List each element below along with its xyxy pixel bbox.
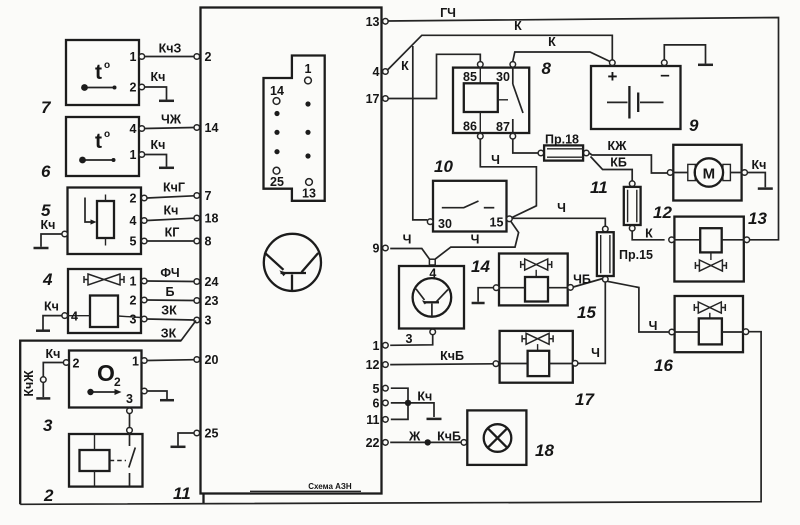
- lamp 18 box: [467, 410, 526, 465]
- valve 16 right pin: [743, 329, 749, 335]
- wire valve16 right pin to bottom rail: [20, 332, 761, 505]
- svg-text:11: 11: [590, 178, 608, 197]
- svg-text:3: 3: [130, 313, 137, 327]
- sensor 7 box: [66, 40, 139, 105]
- valve 13 stub: [710, 252, 712, 260]
- svg-text:2: 2: [130, 192, 137, 206]
- valve symbol inside 4: [84, 274, 124, 285]
- valve 13 through line: [674, 239, 744, 241]
- connector pin 13: [306, 179, 313, 186]
- wire valve15 left to ground: [478, 288, 493, 302]
- svg-text:18: 18: [535, 441, 554, 460]
- wire Ch ignition pin15 to fuse Pr15: [512, 218, 605, 226]
- svg-text:Ч: Ч: [403, 233, 412, 247]
- battery 9 box: [591, 66, 681, 129]
- ground for O2 pin 3: [160, 399, 174, 402]
- svg-text:6: 6: [373, 397, 380, 411]
- svg-text:t: t: [95, 130, 102, 153]
- svg-text:Пр.15: Пр.15: [619, 248, 653, 262]
- ground for O2 KchZh: [36, 397, 50, 400]
- wire KZh fuse18 to motor 12: [589, 153, 667, 173]
- svg-text:Ч: Ч: [649, 319, 658, 333]
- O2 symbol: [97, 360, 121, 389]
- svg-text:КчБ: КчБ: [440, 349, 464, 363]
- svg-text:КГ: КГ: [165, 226, 180, 240]
- svg-text:7: 7: [41, 98, 52, 117]
- sensor 6 box: [66, 117, 139, 176]
- valve 15 left pin: [493, 285, 499, 291]
- actuator 4 pin 2: [141, 297, 147, 303]
- relay 8 pin 86 bottom: [478, 133, 484, 139]
- svg-text:Ч: Ч: [491, 153, 500, 167]
- ECU controller box: [201, 8, 382, 494]
- wire ZK ECU pin3 down to harness box: [20, 321, 196, 341]
- svg-text:Ч: Ч: [557, 201, 566, 215]
- motor 12 right pin: [742, 170, 748, 176]
- svg-text:20: 20: [205, 353, 219, 367]
- svg-text:4: 4: [373, 65, 380, 79]
- valve 17 right pin: [572, 361, 578, 367]
- svg-text:Кч: Кч: [41, 218, 56, 232]
- svg-text:Б: Б: [166, 285, 175, 299]
- wire ChB valve15 to fuse Pr15: [573, 279, 603, 288]
- wire FCh pin1-4 to ECU pin24: [147, 280, 194, 283]
- connector dots right: [305, 101, 310, 158]
- ground for sensor 6: [159, 167, 174, 170]
- svg-text:4: 4: [42, 270, 53, 289]
- ground for ECU pin 25: [171, 446, 186, 449]
- svg-text:КчЗ: КчЗ: [159, 42, 182, 56]
- relay 8 coil leads: [479, 68, 481, 133]
- O2 bottom pin: [127, 408, 133, 414]
- actuator 4 inner link: [68, 316, 141, 318]
- wire Kch pin1-6 to ground: [145, 155, 167, 167]
- actuator 4 box: [68, 269, 141, 333]
- ECU footer label: [250, 482, 361, 491]
- module 14 box: [399, 266, 464, 329]
- ignition 10 contacts: [442, 201, 495, 208]
- ECU pin 2: [194, 54, 200, 60]
- svg-text:o: o: [104, 129, 110, 140]
- wire Ch fusePr15 to valve 16: [607, 281, 669, 332]
- relay 2 top pin: [127, 428, 133, 434]
- svg-text:К: К: [401, 59, 409, 73]
- relay 8 box: [453, 68, 529, 133]
- actuator 4 inner rect: [90, 296, 118, 328]
- ECU pin 6: [383, 400, 389, 406]
- wire Kch O2 pin2 left: [43, 363, 63, 377]
- svg-text:ФЧ: ФЧ: [160, 266, 179, 280]
- ECU pin 22: [383, 440, 389, 446]
- svg-text:Ч: Ч: [591, 346, 600, 360]
- valve symbol inside 13: [695, 260, 726, 271]
- valve 17 stub: [537, 344, 539, 351]
- svg-text:15: 15: [577, 303, 596, 322]
- fuse Pr.15: [597, 226, 614, 282]
- svg-text:30: 30: [438, 217, 452, 231]
- svg-text:Пр.18: Пр.18: [545, 133, 579, 147]
- ECU pin 8: [194, 238, 200, 244]
- svg-text:Ч: Ч: [471, 233, 480, 247]
- sensor 7 t-symbol: [81, 60, 116, 91]
- svg-text:5: 5: [130, 235, 137, 249]
- sensor 6 pin 4: [139, 126, 145, 132]
- ECU pin 9: [383, 245, 389, 251]
- valve unit 13 box: [674, 217, 743, 282]
- svg-text:15: 15: [490, 216, 504, 230]
- svg-text:11: 11: [173, 484, 191, 503]
- svg-text:2: 2: [130, 294, 137, 308]
- wire KchG pin2-5 to ECU pin7: [147, 196, 194, 198]
- ECU pin 4: [383, 69, 389, 75]
- sensor 5 pin 4: [141, 218, 147, 224]
- svg-text:Кч: Кч: [44, 300, 59, 314]
- svg-text:16: 16: [654, 356, 673, 375]
- valve unit 17 box: [500, 331, 573, 383]
- module 14 transistor: [413, 278, 452, 317]
- svg-text:КЖ: КЖ: [608, 139, 628, 153]
- wire KchZ pin1-7 to ECU pin2: [145, 56, 194, 58]
- wire Kch sensor5 to ground: [41, 234, 62, 247]
- wire O2 bottom pin to relay 2: [129, 414, 131, 428]
- wire Zh-KchB ECU pin22 to lamp 18: [390, 441, 461, 443]
- svg-text:O: O: [97, 360, 115, 386]
- svg-text:–: –: [660, 65, 669, 84]
- node junction above module 14: [429, 259, 435, 265]
- transistor inside ECU: [264, 234, 321, 291]
- ECU pin 11: [383, 417, 389, 423]
- svg-text:2: 2: [205, 50, 212, 64]
- wire K relay8 pin30 to battery plus: [513, 52, 610, 62]
- connector symbol inside ECU: [264, 56, 325, 201]
- svg-text:30: 30: [496, 70, 510, 84]
- svg-text:М: М: [703, 166, 716, 183]
- motor 12 left pin: [667, 170, 673, 176]
- svg-text:К: К: [645, 227, 653, 241]
- wire Ch ignition pin15 down to node 14: [435, 221, 518, 259]
- svg-text:КчЖ: КчЖ: [22, 370, 36, 397]
- ECU pin 18: [194, 215, 200, 221]
- relay 8 switch: [499, 68, 523, 133]
- svg-text:23: 23: [205, 294, 219, 308]
- svg-text:Кч: Кч: [46, 347, 61, 361]
- ground for actuator 4: [36, 329, 50, 332]
- ECU pin 5: [383, 385, 389, 391]
- O2 pin 2: [63, 360, 69, 366]
- svg-text:К: К: [514, 19, 522, 33]
- svg-text:o: o: [104, 60, 110, 71]
- wire B pin2-4 to ECU pin23: [147, 299, 194, 302]
- wire ZK pin3-4 to ECU pin3: [147, 319, 194, 320]
- battery - terminal: [662, 60, 668, 66]
- svg-text:Кч: Кч: [151, 138, 166, 152]
- motor 12 symbol: [673, 158, 741, 186]
- svg-text:14: 14: [471, 257, 490, 276]
- svg-text:1: 1: [373, 339, 380, 353]
- lamp 18 symbol: [484, 424, 512, 452]
- svg-text:ЧБ: ЧБ: [573, 273, 591, 287]
- wire ChZh pin4-6 to ECU pin14: [145, 128, 194, 129]
- svg-text:24: 24: [205, 275, 219, 289]
- svg-text:2: 2: [130, 81, 137, 95]
- wire KB fuse18 to fuse 11: [591, 157, 633, 181]
- valve 15 right pin: [568, 285, 574, 291]
- svg-text:13: 13: [366, 15, 380, 29]
- sensor 5 box: [68, 188, 142, 255]
- svg-text:КчБ: КчБ: [437, 430, 461, 444]
- wire battery minus to ground: [664, 45, 705, 64]
- svg-text:Кч: Кч: [417, 390, 432, 404]
- ground for battery minus: [698, 64, 713, 67]
- svg-text:13: 13: [748, 209, 767, 228]
- valve 13 right pin: [744, 237, 750, 243]
- valve symbol inside 17: [522, 333, 553, 344]
- valve 15 through line: [499, 287, 568, 289]
- wire module14 to ECU pin1: [390, 335, 433, 346]
- valve 15 inner rect: [525, 277, 548, 302]
- wire Kch motor to ground: [747, 173, 765, 188]
- svg-text:КБ: КБ: [610, 156, 627, 170]
- wire O2 pin1 to ECU pin20: [147, 359, 194, 362]
- ground for sensor 7: [159, 100, 174, 103]
- valve symbol inside 15: [521, 259, 552, 270]
- svg-text:3: 3: [126, 392, 133, 406]
- svg-text:9: 9: [373, 242, 380, 256]
- svg-text:6: 6: [41, 162, 51, 181]
- actuator 4 pin 1: [141, 278, 147, 284]
- svg-text:17: 17: [366, 92, 380, 106]
- wire KchZh down to ground: [42, 382, 44, 397]
- sensor 5 pin 5: [141, 238, 147, 244]
- sensor 7 pin 1: [139, 54, 145, 60]
- svg-text:1: 1: [305, 62, 312, 76]
- junction dot pin22 wire: [425, 439, 431, 445]
- O2 sensor 3 box: [69, 351, 142, 408]
- svg-text:3: 3: [205, 314, 212, 328]
- svg-text:4: 4: [130, 214, 137, 228]
- wire Kch pin2-7 to ground: [145, 87, 167, 100]
- svg-text:7: 7: [205, 189, 212, 203]
- wire KchB ECU pin12 to valve 17: [390, 363, 493, 366]
- svg-text:8: 8: [205, 235, 212, 249]
- ignition 10 pin 15: [507, 216, 513, 222]
- svg-text:12: 12: [653, 203, 672, 222]
- battery + terminal: [610, 60, 616, 66]
- svg-text:2: 2: [114, 375, 121, 389]
- valve 13 inner rect: [700, 228, 722, 252]
- wire Kch pin4-5 to ECU pin18: [147, 218, 194, 220]
- ECU pin 23: [194, 298, 200, 304]
- svg-text:4: 4: [130, 122, 137, 136]
- valve 15 stub: [535, 270, 537, 277]
- valve 17 through line: [500, 363, 573, 365]
- svg-text:2: 2: [73, 357, 80, 371]
- ECU pin 1: [383, 343, 389, 349]
- harness box (component 1 area): [20, 341, 181, 505]
- battery cell symbol: [607, 86, 664, 119]
- motor 12 box: [673, 145, 741, 201]
- wire Ch fusePr15 down to valve 17: [578, 282, 605, 363]
- svg-text:22: 22: [366, 436, 380, 450]
- wire relay8 pin87 to fuse Pr18: [513, 139, 538, 153]
- svg-text:Ж: Ж: [408, 430, 421, 444]
- node KchZh: [41, 377, 47, 383]
- sensor 6 t-symbol: [79, 129, 115, 163]
- ECU pin 24: [194, 279, 200, 285]
- svg-text:ЗК: ЗК: [161, 304, 177, 318]
- svg-text:ЧЖ: ЧЖ: [161, 113, 182, 127]
- ECU pin 7: [194, 193, 200, 199]
- fuse 11 (Pr.): [624, 181, 641, 231]
- ECU pin 25: [194, 430, 200, 436]
- module 14 bottom pin: [430, 329, 436, 335]
- valve 16 stub: [709, 313, 711, 319]
- junction dot pins 5-6-11: [405, 400, 411, 406]
- svg-text:86: 86: [463, 120, 477, 134]
- svg-text:Схема АЗН: Схема АЗН: [308, 482, 352, 491]
- connector dots left: [274, 111, 279, 154]
- svg-text:4: 4: [71, 310, 78, 324]
- svg-text:Кч: Кч: [151, 70, 166, 84]
- valve 17 left pin: [493, 361, 499, 367]
- ECU pin 14: [194, 125, 200, 131]
- lamp 18 left pin: [461, 440, 467, 446]
- svg-text:13: 13: [302, 187, 316, 201]
- O2 pin 1: [142, 358, 148, 364]
- wire K fuse11 to valve 13: [632, 231, 664, 240]
- svg-text:25: 25: [270, 175, 284, 189]
- svg-text:18: 18: [205, 212, 219, 226]
- valve 17 inner rect: [528, 351, 550, 376]
- wire ECU pins 5-6-11 common: [391, 388, 434, 419]
- relay 2 switch: [110, 434, 136, 487]
- wire relay8 pin86 Ch to ignition pin15: [480, 139, 536, 218]
- svg-text:8: 8: [542, 59, 552, 78]
- relay 8 coil: [464, 83, 498, 112]
- wire ECU pin25 to ground: [178, 433, 194, 446]
- wire Ch ECU pin9 to node 14: [390, 249, 429, 259]
- ECU pin 12: [383, 362, 389, 368]
- svg-text:ЗК: ЗК: [161, 327, 177, 341]
- ignition switch 10 box: [433, 181, 507, 232]
- wire KG pin5-5 to ECU pin8: [147, 240, 194, 242]
- wire GCh ECU pin13 to right rail: [387, 18, 778, 240]
- ECU pin 20: [194, 357, 200, 363]
- relay 8 pin 30 top: [510, 62, 516, 68]
- O2 pin 3 side: [142, 388, 148, 394]
- svg-text:ГЧ: ГЧ: [440, 6, 456, 20]
- svg-text:К: К: [548, 35, 556, 49]
- valve 13 left pin: [669, 237, 675, 243]
- sensor 7 pin 2: [139, 84, 145, 90]
- valve 16 left pin: [669, 329, 675, 335]
- svg-text:87: 87: [496, 120, 510, 134]
- svg-text:3: 3: [406, 332, 413, 346]
- svg-text:3: 3: [43, 416, 53, 435]
- svg-text:Кч: Кч: [752, 158, 767, 172]
- svg-text:14: 14: [205, 121, 219, 135]
- wire K ECU pin4 diagonal to battery plus: [387, 35, 612, 70]
- actuator 4 pin 4 circle: [62, 313, 68, 319]
- svg-text:t: t: [95, 61, 102, 84]
- sensor 5 left pin: [62, 231, 68, 237]
- svg-text:11: 11: [366, 413, 379, 427]
- ground for valve 15: [472, 302, 485, 305]
- svg-text:9: 9: [689, 116, 699, 135]
- svg-text:+: +: [608, 67, 618, 86]
- svg-text:10: 10: [434, 157, 453, 176]
- svg-text:Кч: Кч: [164, 204, 179, 218]
- sensor 5 pin 2: [141, 195, 147, 201]
- valve unit 15 box: [499, 254, 568, 306]
- wire ECU pin4 to ignition 10 pin30: [413, 46, 428, 220]
- sensor 6 pin 1: [139, 152, 145, 158]
- svg-text:85: 85: [463, 70, 477, 84]
- valve symbol inside 16: [694, 302, 725, 313]
- ground for sensor 5: [34, 247, 49, 250]
- relay 8 pin 87 bottom: [510, 133, 516, 139]
- svg-text:5: 5: [373, 382, 380, 396]
- svg-text:25: 25: [205, 427, 219, 441]
- ECU pin 3: [194, 317, 200, 323]
- svg-text:1: 1: [130, 275, 137, 289]
- valve 16 through line: [675, 331, 743, 333]
- wire Kch actuator4 to ground: [43, 316, 62, 330]
- relay 8 pin 85 top: [478, 62, 484, 68]
- ECU pin 13: [383, 19, 389, 25]
- svg-text:14: 14: [270, 84, 284, 98]
- svg-text:КчГ: КчГ: [163, 181, 185, 195]
- wire ECU pin17 to relay8 pin85: [387, 54, 480, 98]
- svg-text:2: 2: [43, 486, 54, 505]
- fuse Pr.18: [538, 145, 589, 160]
- actuator 4 pin 3: [141, 316, 147, 322]
- ground for ECU pins 5-6-11: [427, 418, 442, 421]
- connector pin 25: [273, 167, 280, 174]
- svg-text:1: 1: [132, 355, 139, 369]
- svg-text:12: 12: [366, 358, 380, 372]
- O2 heater dot-arrow: [87, 389, 121, 395]
- svg-text:1: 1: [130, 148, 137, 162]
- svg-text:17: 17: [575, 390, 595, 409]
- relay 2 coil: [80, 450, 110, 471]
- valve unit 16 box: [675, 296, 743, 352]
- ground for motor 12: [758, 187, 773, 190]
- relay 2 box: [69, 434, 143, 487]
- ignition 10 pin 30: [427, 219, 433, 225]
- sensor 5 potentiometer: [85, 195, 114, 246]
- relay 2 coil leads: [94, 434, 96, 487]
- wire O2 pin3 to ground: [147, 391, 167, 399]
- harness box right lower edge: [202, 494, 204, 504]
- svg-text:1: 1: [130, 50, 137, 64]
- ECU pin 17: [383, 96, 389, 102]
- valve 16 inner rect: [699, 318, 722, 344]
